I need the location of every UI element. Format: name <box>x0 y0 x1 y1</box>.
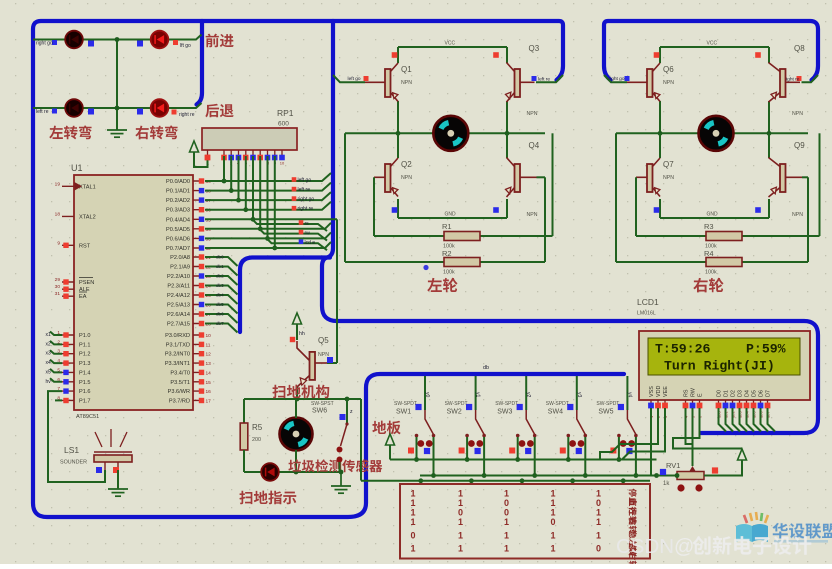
junction SW3/common rail <box>515 457 520 462</box>
wire: P2.1 to data bus db1 <box>205 267 238 276</box>
RP1 pin 5 state square <box>243 155 249 161</box>
RV1 right state square <box>712 467 718 473</box>
truth table row label 右转 <box>629 517 637 534</box>
LCD pin numbers rotated <box>649 411 771 418</box>
truth table frame <box>400 484 650 559</box>
wire: LCD E down-left <box>673 408 742 449</box>
junction RP1-3/P0.2 <box>236 198 241 203</box>
LCD pin D0 state square <box>716 403 722 409</box>
wire: SW6 right rail drop <box>360 399 362 481</box>
U1 P1.1 pin state square <box>63 342 68 347</box>
svg-text:db4: db4 <box>216 293 224 298</box>
svg-text:14: 14 <box>206 370 212 376</box>
svg-text:10: 10 <box>206 333 212 339</box>
junction RP1-4/P0.3 <box>243 207 248 212</box>
svg-text:R2: R2 <box>442 249 452 258</box>
U1 P2.6 pin state square <box>199 311 204 316</box>
wire: Q6 base from bus <box>604 75 627 82</box>
junction SW2/common rail <box>465 457 470 462</box>
svg-text:0: 0 <box>504 508 509 518</box>
svg-text:x5: x5 <box>46 369 52 375</box>
wire: P0.1 row to bus (left re) <box>205 183 331 191</box>
svg-text:Q1: Q1 <box>401 65 412 74</box>
svg-text:NPN: NPN <box>663 175 674 181</box>
watermark logo subline <box>774 540 828 543</box>
wire: Q2 base link <box>373 176 375 178</box>
SW2 state square <box>466 404 472 410</box>
label left wheel 左轮 <box>427 278 457 293</box>
svg-text:1: 1 <box>504 544 509 554</box>
net square lft go <box>173 40 178 45</box>
label right wheel 右轮 <box>693 278 723 293</box>
U1 RST pin state square <box>63 243 68 248</box>
svg-text:P2.5/A13: P2.5/A13 <box>167 303 190 309</box>
svg-text:0: 0 <box>596 544 601 554</box>
net square rs <box>299 220 304 225</box>
wire: loop R-upper right right wheel <box>819 133 821 236</box>
resistor R3 <box>706 232 742 241</box>
label garbage sensor 垃圾检测传感器 <box>288 459 382 472</box>
wire: VCC rail right wheel <box>660 46 769 48</box>
SW1 throw state square red <box>408 448 414 454</box>
wire: RP1 resistor 4 vertical to P0.3 <box>245 156 247 210</box>
U1 P1.0 pin state square <box>63 332 68 337</box>
U1 P3.4 pin state square <box>199 370 204 375</box>
U1 ALE pin state square <box>63 287 68 292</box>
LCD pin RS state square <box>683 403 689 409</box>
svg-text:P2.1/A9: P2.1/A9 <box>170 265 190 271</box>
wire: loop inner-left right wheel to Q7 base <box>635 177 637 236</box>
wire: P1.4 stub to net x5 <box>50 369 62 373</box>
svg-text:x2: x2 <box>46 341 52 347</box>
wire: P1.3 stub to net x4 <box>50 360 62 364</box>
U1 XTAL1 clock input arrow <box>75 183 81 190</box>
svg-text:R5: R5 <box>252 423 263 432</box>
U1 P2.7 pin state square <box>199 321 204 326</box>
svg-text:z: z <box>350 409 353 415</box>
wire: Q8 collector riser <box>768 47 770 63</box>
U1 P0.7 pin state square <box>199 245 204 250</box>
LCD pin D5 state square <box>751 403 757 409</box>
svg-text:D6: D6 <box>759 390 765 397</box>
LCD pin D1 state square <box>723 403 729 409</box>
net square hh <box>290 337 295 342</box>
wire: LCD D3 bus entry <box>740 408 748 432</box>
svg-text:P1.0: P1.0 <box>79 333 91 339</box>
state square Q3 collector <box>493 52 499 58</box>
svg-text:P0.0/AD0: P0.0/AD0 <box>166 179 190 185</box>
wire: rw pull-up branch to bus <box>260 229 327 241</box>
svg-text:D7: D7 <box>766 390 772 397</box>
junction SW5/rail2 <box>634 473 639 478</box>
Q3 base stub <box>520 81 535 83</box>
microcontroller U1 AT89C51 body <box>74 175 193 410</box>
SW4 throw state square red <box>560 448 566 454</box>
wire: Q9 emitter drop <box>768 199 770 218</box>
svg-text:1: 1 <box>410 498 415 508</box>
wire: GND rail right wheel <box>660 217 769 219</box>
LCD pin VDD state square <box>655 403 661 409</box>
svg-text:Q3: Q3 <box>529 44 540 53</box>
wire: Q5 collector to P0.4 vertical <box>327 219 337 363</box>
SW4 throw state square blue <box>576 448 582 454</box>
transistor Q5 <box>310 352 316 380</box>
wire: Q2 collector riser <box>397 133 399 158</box>
junction SW1/common rail <box>414 457 419 462</box>
transistor Q7 <box>647 158 660 197</box>
svg-text:1: 1 <box>550 489 555 499</box>
label sweeper 扫地机构 <box>272 385 329 399</box>
pin state square left_re anode <box>88 109 94 115</box>
svg-text:1k: 1k <box>663 481 670 487</box>
svg-text:12: 12 <box>206 352 212 358</box>
junction sweeper rail/ground <box>339 470 344 475</box>
wire: rs pull-up branch to bus <box>253 219 327 231</box>
svg-text:SW-SPDT: SW-SPDT <box>596 401 619 407</box>
wire: LCD D7 bus entry <box>768 408 776 432</box>
LCD pin D6 state square <box>758 403 764 409</box>
wire: LCD VEE left run <box>622 408 665 460</box>
wire: SW1 drop from db bus <box>424 376 426 410</box>
svg-text:0: 0 <box>550 517 555 527</box>
wire: loop outer-left right wheel <box>615 133 617 262</box>
RV1 adjust buttons <box>677 484 684 491</box>
wire: Q6 emitter drop <box>659 101 661 133</box>
svg-text:1: 1 <box>458 531 463 541</box>
state square SW6 <box>340 414 346 420</box>
SW3 state square <box>517 404 523 410</box>
SW1 state square <box>415 404 421 410</box>
wire: Q7 collector riser <box>659 133 661 158</box>
svg-text:P0.7/AD7: P0.7/AD7 <box>166 246 190 252</box>
svg-text:XTAL1: XTAL1 <box>79 184 96 190</box>
LCD pin D3 state square <box>737 403 743 409</box>
junction motor rail right left wheel <box>505 131 510 136</box>
svg-text:NPN: NPN <box>527 111 538 117</box>
truth table row label 左转 <box>629 508 637 525</box>
svg-text:y1: y1 <box>475 392 481 398</box>
svg-text:1: 1 <box>458 489 463 499</box>
wire: RP1 pin1 to VCC terminal <box>194 152 208 167</box>
LED right_re (on) <box>151 99 169 117</box>
svg-text:30: 30 <box>55 284 61 290</box>
svg-text:db0: db0 <box>216 255 224 260</box>
wire: SW2 right pole down <box>483 437 485 476</box>
wire: lower rail 3 <box>361 480 650 482</box>
wire: motor rail left wheel <box>345 132 545 134</box>
svg-text:@: @ <box>674 536 694 558</box>
wire: GND rail left wheel <box>398 217 507 219</box>
wire: SW3 left pole to common rail <box>517 437 519 460</box>
svg-text:right re: right re <box>179 112 195 118</box>
wire: sounder left pin to P1.6 net <box>103 470 105 482</box>
svg-text:1: 1 <box>410 517 415 527</box>
net square right re <box>292 206 297 211</box>
wire: SW4 drop from db bus <box>576 376 578 410</box>
wire: P0.2 row to bus (right go) <box>205 192 331 200</box>
net square rw <box>299 230 304 235</box>
wire: loop outer-left left wheel <box>344 133 346 262</box>
ground sweeper <box>331 472 351 493</box>
U1 pin numbers right side <box>206 179 212 404</box>
svg-text:1: 1 <box>458 498 463 508</box>
wire: loop R-lower right right wheel to Q9 base <box>807 177 809 262</box>
LCD screen <box>648 338 800 375</box>
RP1 pin 9 state square <box>272 155 278 161</box>
net square right go <box>292 196 297 201</box>
state square Q4 emitter <box>493 207 499 213</box>
bus: P2 data-bus branch <box>240 258 330 333</box>
sounder pin2 state square <box>113 467 119 473</box>
svg-text:P1.4: P1.4 <box>79 370 91 376</box>
wire: Q1 collector riser <box>397 47 399 63</box>
wire: rail into RV1 <box>657 475 678 477</box>
resistor R4 <box>706 258 742 267</box>
LCD pin RW state square <box>690 403 696 409</box>
SW5 throw state square blue <box>626 448 632 454</box>
svg-text:P2.2/A10: P2.2/A10 <box>167 274 190 280</box>
svg-text:1: 1 <box>410 508 415 518</box>
wire: RP1 resistor 1 vertical to P0.0 <box>223 156 225 181</box>
resistor R1 <box>444 232 480 241</box>
RP1 pin 10 state square <box>279 155 285 161</box>
resistor R5 body <box>240 423 248 450</box>
svg-text:15: 15 <box>206 380 212 386</box>
RP1 pin 8 state square <box>265 155 271 161</box>
LCD pin D4 state square <box>744 403 750 409</box>
svg-text:NPN: NPN <box>792 111 803 117</box>
switch SW5 lever <box>627 410 636 435</box>
wire: P1.0 stub to net x1 <box>50 332 62 336</box>
U1 P1.3 pin state square <box>63 360 68 365</box>
sounder pins <box>105 462 118 470</box>
svg-text:P1.3: P1.3 <box>79 361 91 367</box>
U1 P0.4 pin state square <box>199 217 204 222</box>
U1 P3.1 pin state square <box>199 342 204 347</box>
wire: LCD D1 bus entry <box>726 408 734 432</box>
svg-text:100k: 100k <box>443 270 455 276</box>
svg-text:11: 11 <box>206 342 211 348</box>
wire: sweeper motor top lead <box>295 399 297 418</box>
wire: P0.3 row to bus (right re) <box>205 202 331 210</box>
svg-text:right go: right go <box>298 197 315 203</box>
svg-text:1: 1 <box>458 544 463 554</box>
SW1 throw state square blue <box>424 448 430 454</box>
U1 P0.1 pin state square <box>199 188 204 193</box>
wire: LCD D4 bus entry <box>747 408 755 432</box>
wire: Q4 emitter drop <box>506 199 508 218</box>
label sweep indicator 扫地指示 <box>239 491 296 505</box>
wire: LCD VSS down to rail <box>650 408 652 476</box>
power terminal VCC at RV1 <box>738 449 747 460</box>
svg-text:GND: GND <box>707 212 719 218</box>
transistor Q2 <box>385 158 398 197</box>
pin state square right_go anode <box>88 41 94 47</box>
switch SW4 lever <box>577 410 586 435</box>
svg-text:SW1: SW1 <box>396 409 411 416</box>
wire: VCC rail left wheel <box>398 46 507 48</box>
svg-text:0: 0 <box>504 498 509 508</box>
Q7 base stub <box>636 176 647 178</box>
label turn-left 左转弯 <box>49 126 91 140</box>
svg-text:db7: db7 <box>216 321 224 326</box>
wire: Q5 emitter to top rail <box>296 387 298 399</box>
SW4 state square <box>567 404 573 410</box>
svg-text:P2.0/A8: P2.0/A8 <box>170 255 190 261</box>
svg-text:LCD1: LCD1 <box>637 297 659 307</box>
wire: P0.6 row direct bus entry <box>205 232 331 238</box>
svg-text:R4: R4 <box>704 249 714 258</box>
svg-text:D1: D1 <box>724 390 730 397</box>
svg-text:1: 1 <box>550 498 555 508</box>
junction RP1-1/P0.0 <box>222 179 227 184</box>
wire: R5 bottom lead <box>243 450 245 472</box>
svg-text:SW3: SW3 <box>497 409 512 416</box>
switch SW6 lever <box>341 424 348 446</box>
label backward 后退 <box>205 104 233 118</box>
wire: P2.4 to data bus db4 <box>205 295 238 304</box>
wire: center vertical between LED rows to ground <box>116 40 118 131</box>
svg-text:0: 0 <box>596 498 601 508</box>
label floor 地板 <box>372 421 400 435</box>
U1 pin names right side <box>165 179 190 404</box>
wire: forward LED row <box>33 35 202 40</box>
junction SW6 branch/top rail <box>345 397 350 402</box>
truth table row label 急左转 <box>629 531 637 556</box>
bus: main outer frame (top rail left section, left edge, bottom, db bus riser) <box>33 21 624 517</box>
SW3 throw state square blue <box>525 448 531 454</box>
wire: P2.6 to data bus db6 <box>205 314 238 323</box>
RP1 pin 4 state square <box>236 155 242 161</box>
wire: R5 top lead <box>243 399 245 423</box>
svg-text:db: db <box>483 365 489 371</box>
pin state square right_re cathode <box>137 109 143 115</box>
svg-text:LS1: LS1 <box>64 445 79 455</box>
power terminal VCC at RP1 pin 1 <box>190 141 199 152</box>
net square right re <box>797 76 802 81</box>
svg-text:1: 1 <box>596 531 601 541</box>
LED left_go (on) <box>151 31 169 49</box>
wire: SW3 drop from db bus <box>525 376 527 410</box>
wire: Q7 base link <box>635 176 637 178</box>
SW5 throw state square red <box>610 448 616 454</box>
junction RP1-2/P0.1 <box>229 188 234 193</box>
svg-text:P0.6/AD6: P0.6/AD6 <box>166 236 190 242</box>
RP1 pin 6 state square <box>250 155 256 161</box>
svg-text:hh: hh <box>299 331 305 337</box>
LED right_go (off) <box>65 31 83 49</box>
svg-text:D0: D0 <box>717 390 723 397</box>
Q5 collector lead to P0.4 branch <box>315 362 327 364</box>
svg-text:D2: D2 <box>731 390 737 397</box>
junction reverse row / center <box>115 106 120 111</box>
wire: SW3 right pole down <box>534 437 536 476</box>
wire: LCD D5 bus entry <box>754 408 762 432</box>
LCD pin stubs <box>651 400 768 403</box>
wire: P0.5 row direct bus entry <box>205 223 331 229</box>
wire: Q3 emitter drop <box>506 101 508 133</box>
svg-text:P0.2/AD2: P0.2/AD2 <box>166 198 190 204</box>
svg-text:NPN: NPN <box>401 80 412 86</box>
svg-text:Q9: Q9 <box>794 141 805 150</box>
svg-text:GND: GND <box>445 212 457 218</box>
wire: SW6 branch <box>347 399 361 424</box>
svg-text:lcd e: lcd e <box>305 240 316 246</box>
svg-text:P:59%: P:59% <box>746 342 786 357</box>
U1 P0.6 pin state square <box>199 236 204 241</box>
resistor pack RP1 body <box>202 128 297 150</box>
svg-text:P3.4/T0: P3.4/T0 <box>170 370 190 376</box>
svg-text:E: E <box>698 393 704 397</box>
svg-text:EA: EA <box>79 294 87 300</box>
wire: SW2 drop from db bus <box>475 376 477 410</box>
state square Q6 collector <box>654 52 660 58</box>
Q5 emitter lead <box>297 376 310 388</box>
svg-text:NPN: NPN <box>318 352 329 358</box>
svg-text:hv: hv <box>46 379 52 385</box>
wire: SW1 right pole down <box>433 437 435 476</box>
svg-text:10: 10 <box>280 161 285 166</box>
net square left re <box>532 76 537 81</box>
net square left go <box>364 76 369 81</box>
bus: top rail right section with drops at Q6 and Q8 <box>604 21 818 80</box>
RP1 pin numbers <box>207 161 285 166</box>
svg-text:NPN: NPN <box>663 80 674 86</box>
junction forward row / center <box>115 37 120 42</box>
svg-text:y4: y4 <box>626 392 632 398</box>
svg-text:db6: db6 <box>216 312 224 317</box>
label turn-right 右转弯 <box>135 126 177 140</box>
U1 P3.5 pin state square <box>199 379 204 384</box>
wire: RP1 resistor 7 vertical to P0.6 <box>267 156 269 238</box>
wire: switch common rail <box>390 459 657 461</box>
svg-text:R1: R1 <box>442 222 452 231</box>
LED sweep indicator <box>261 463 279 481</box>
U1 P3.0 pin state square <box>199 332 204 337</box>
svg-text:P3.5/T1: P3.5/T1 <box>170 380 190 386</box>
svg-text:16: 16 <box>206 389 212 395</box>
RP1 pin 2 state square <box>221 155 227 161</box>
motor left wheel <box>433 116 468 151</box>
junction RP1-7/P0.6 <box>265 236 270 241</box>
wire: P2.7 to data bus db7 <box>205 324 238 333</box>
wire: loop R-lower right left wheel to Q4 base <box>544 177 546 262</box>
transistor Q9 <box>769 158 786 198</box>
svg-text:R3: R3 <box>704 222 714 231</box>
net square left re <box>52 109 57 114</box>
junction RP1-6/P0.5 <box>258 226 263 231</box>
svg-text:y0: y0 <box>424 392 430 398</box>
SW2 throw state square red <box>459 448 465 454</box>
svg-text:RW: RW <box>691 387 697 397</box>
wire: loop inner-left left wheel to Q2 base <box>373 177 375 236</box>
wire: SW5 drop from db bus <box>626 376 628 410</box>
wire: floor terminal stem <box>389 445 391 460</box>
wire: LCD D6 bus entry <box>761 408 769 432</box>
U1 P0.3 pin state square <box>199 207 204 212</box>
wire: RP1 resistor 5 vertical to P0.4 <box>252 156 254 219</box>
wire: Q2 emitter drop <box>397 199 399 218</box>
state square Q2 emitter <box>392 207 398 213</box>
svg-text:left re: left re <box>36 109 49 115</box>
wire: motor rail right wheel <box>616 132 808 134</box>
svg-text:x4: x4 <box>46 360 52 366</box>
wire: LCD RS down <box>686 408 693 444</box>
svg-text:P2.3/A11: P2.3/A11 <box>167 284 190 290</box>
junction motor rail right right wheel <box>767 131 772 136</box>
svg-text:VCC: VCC <box>445 41 456 47</box>
state square Q9 emitter <box>755 207 761 213</box>
